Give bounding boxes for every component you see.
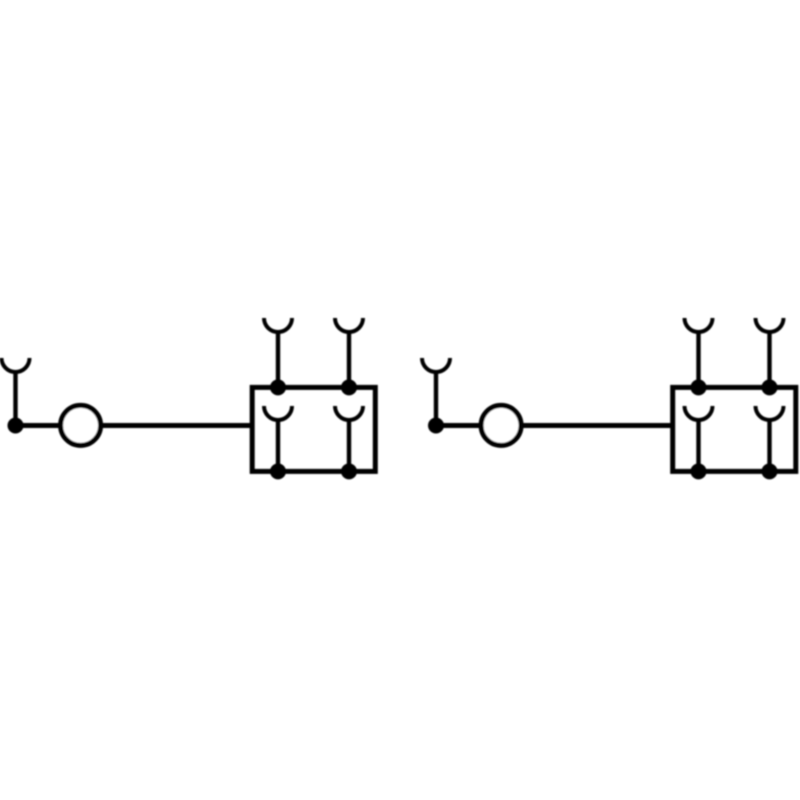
socket contact J5 (inside U1, right) <box>335 406 363 471</box>
connector circle E1 <box>61 405 101 445</box>
socket contact J7 (top-left of U2) <box>685 318 713 387</box>
junction dot B1 (J2 pin on U1 top edge) <box>270 379 286 395</box>
wire from A1 through connector E1 to box U1 <box>16 423 253 428</box>
junction dot B2 (J7 pin on U2 top edge) <box>691 379 707 395</box>
wire from A2 through connector E2 to box U2 <box>436 423 673 428</box>
junction box U1 <box>252 387 375 471</box>
junction dot C1 (J3 pin on U1 top edge) <box>341 379 357 395</box>
connector circle E2 <box>481 405 521 445</box>
junction dot D1 (J4 pin on U1 bottom edge) <box>270 463 286 479</box>
junction dot C2 (J8 pin on U2 top edge) <box>762 379 778 395</box>
socket contact J1 (left fork of circuit 1) <box>2 358 30 426</box>
junction dot A2 <box>428 418 444 434</box>
junction dot E2d (J10 pin on U2 bottom edge) <box>762 463 778 479</box>
socket contact J4 (inside U1, left) <box>264 406 292 471</box>
socket contact J2 (top-left of U1) <box>264 318 292 387</box>
junction dot E1d (J5 pin on U1 bottom edge) <box>341 463 357 479</box>
junction dot A1 <box>8 418 24 434</box>
socket contact J6 (left fork of circuit 2) <box>422 358 450 426</box>
socket contact J3 (top-right of U1) <box>335 318 363 387</box>
socket contact J8 (top-right of U2) <box>756 318 784 387</box>
socket contact J10 (inside U2, right) <box>756 406 784 471</box>
junction dot D2 (J9 pin on U2 bottom edge) <box>691 463 707 479</box>
junction box U2 <box>673 387 796 471</box>
socket contact J9 (inside U2, left) <box>685 406 713 471</box>
